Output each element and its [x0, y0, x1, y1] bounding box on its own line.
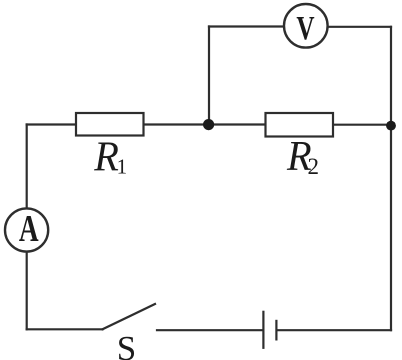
wire top-right segment from voltmeter — [328, 26, 391, 28]
wire right vertical — [390, 27, 392, 330]
node junction dot left — [203, 119, 214, 130]
node junction dot right — [386, 121, 396, 131]
resistor R1 — [76, 113, 144, 136]
svg-text:1: 1 — [117, 155, 128, 179]
svg-text:V: V — [296, 10, 315, 48]
voltmeter V — [284, 4, 328, 48]
wire bottom-right segment from battery — [277, 329, 391, 331]
label R2 — [286, 132, 319, 179]
wire voltmeter branch vertical — [208, 27, 210, 125]
wire left vertical below ammeter — [26, 253, 28, 330]
svg-text:A: A — [19, 208, 39, 250]
label R1 — [93, 133, 127, 180]
wire main horizontal right of R2 — [333, 124, 391, 126]
wire bottom-left segment to switch — [27, 328, 103, 330]
battery long plate — [262, 311, 264, 349]
wire top-left segment to voltmeter — [209, 25, 283, 27]
svg-text:S: S — [117, 329, 136, 360]
ammeter A — [5, 208, 48, 252]
battery short plate — [275, 320, 277, 341]
wire main horizontal left of R1 — [27, 123, 76, 125]
resistor R2 — [266, 113, 334, 137]
svg-text:2: 2 — [308, 154, 320, 179]
switch S blade — [103, 304, 156, 329]
wire main horizontal between R1 and R2 — [144, 123, 266, 125]
wire left vertical above ammeter — [26, 125, 28, 209]
svg-text:R: R — [93, 133, 119, 180]
wire bottom middle segment to battery — [157, 329, 262, 331]
